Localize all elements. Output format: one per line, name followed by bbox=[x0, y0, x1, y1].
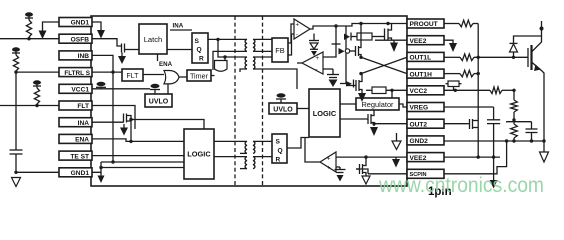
svg-text:Timer: Timer bbox=[190, 71, 209, 80]
capacitor C3 bbox=[487, 120, 500, 159]
svg-text:Q: Q bbox=[278, 148, 283, 155]
svg-text:OSFB: OSFB bbox=[71, 36, 90, 43]
transformer T4 bbox=[245, 157, 255, 169]
svg-text:-: - bbox=[316, 67, 318, 73]
pin ENA bbox=[59, 134, 92, 143]
block Timer bbox=[187, 70, 211, 81]
isolation barrier dashed line left bbox=[234, 16, 236, 186]
resistor R2 bbox=[13, 55, 18, 72]
label INA bbox=[170, 23, 192, 31]
wire T2 to FB bbox=[253, 56, 272, 58]
resistor RB1 bbox=[351, 33, 372, 40]
svg-text:VCC2: VCC2 bbox=[410, 88, 428, 95]
wire OUT2 row bbox=[372, 122, 407, 125]
pin VCC1 bbox=[59, 84, 92, 93]
wire VEE2 row bbox=[375, 39, 407, 41]
arrow bar symbol bbox=[346, 80, 354, 88]
pin OSFB bbox=[59, 34, 92, 43]
svg-text:+: + bbox=[327, 166, 331, 172]
capacitor C2 on VCC2 bbox=[446, 81, 462, 90]
wire Q2 source join bbox=[129, 124, 132, 143]
wire T1b to FB bbox=[253, 50, 272, 52]
zener under A1 bbox=[309, 34, 319, 57]
transistor Q9 bbox=[467, 119, 479, 129]
svg-text:FLTRL S: FLTRL S bbox=[64, 70, 90, 77]
block FB bbox=[272, 38, 288, 62]
arrow open right ext bbox=[540, 141, 549, 162]
svg-text:TE ST: TE ST bbox=[70, 153, 89, 160]
wire RC rail top bbox=[506, 121, 532, 123]
wire LOGIC1 out2 bbox=[214, 156, 247, 158]
block Regulator bbox=[356, 98, 399, 110]
wire T4 to SR2 bbox=[253, 156, 272, 158]
wire GND2 ext bbox=[444, 139, 546, 142]
wire FB to A1 plus bbox=[288, 24, 294, 43]
wire FLTRLS row bbox=[14, 70, 59, 73]
pin FLT bbox=[59, 101, 92, 110]
svg-text:INA: INA bbox=[173, 23, 184, 30]
pin VEE2 lower bbox=[407, 153, 444, 162]
svg-text:GND1: GND1 bbox=[71, 170, 90, 177]
capacitor C1 bbox=[10, 150, 23, 174]
svg-text:OUT1L: OUT1L bbox=[410, 55, 432, 62]
wire A1 out bbox=[310, 22, 407, 29]
wire driver feed bbox=[224, 57, 226, 61]
pin OUT2 bbox=[407, 119, 444, 128]
svg-text:OUT1H: OUT1H bbox=[410, 71, 433, 78]
resistor R6 bbox=[460, 70, 474, 77]
svg-text:R: R bbox=[276, 157, 281, 164]
zener ground at A3 bbox=[335, 167, 346, 182]
svg-text:ENA: ENA bbox=[159, 61, 173, 68]
transistor Q3 bbox=[372, 24, 392, 41]
wire VREG ext bbox=[444, 107, 494, 120]
pin OUT1H bbox=[407, 69, 444, 78]
svg-text:GND1: GND1 bbox=[71, 20, 90, 27]
arrow gnd bottom internal bbox=[98, 172, 105, 183]
svg-text:S: S bbox=[195, 38, 200, 45]
1pin text bbox=[428, 186, 452, 198]
pin VEE2 bbox=[407, 36, 444, 45]
wire OUT1L ext bbox=[444, 56, 528, 59]
svg-text:+: + bbox=[327, 157, 331, 163]
wire LOGIC1 out1 bbox=[214, 140, 247, 142]
arrow diode in1 bbox=[344, 33, 351, 41]
transformer T3 bbox=[245, 141, 255, 153]
arrow to VEE2 bbox=[390, 40, 398, 52]
wire A3 in feed bbox=[336, 155, 407, 158]
wire FLTRLS to FLT bbox=[92, 70, 122, 73]
wire mid vertical bus bbox=[111, 72, 114, 164]
wire T1 to FB bbox=[253, 38, 272, 40]
block UVLO1 bbox=[145, 94, 172, 107]
transistor Q5 bbox=[346, 74, 362, 93]
capacitor C4 bbox=[526, 122, 538, 141]
wire OSFB to Latch bbox=[92, 39, 122, 46]
wire VEE2 ext arrow bbox=[444, 40, 457, 52]
svg-text:ENA: ENA bbox=[75, 137, 89, 144]
op-amp A2 bbox=[302, 52, 323, 74]
resistor R8 vertical bbox=[511, 90, 518, 121]
arrow to VEE2 lower bbox=[392, 157, 400, 167]
wire OUT1H ext bbox=[444, 73, 478, 75]
svg-text:R: R bbox=[199, 56, 204, 63]
wire bus1 to LOGIC1 bbox=[101, 161, 184, 163]
IC boundary box bbox=[91, 16, 407, 186]
wire T3 stub bbox=[240, 152, 247, 154]
ground G-left bbox=[12, 178, 21, 187]
svg-text:INA: INA bbox=[78, 120, 90, 127]
svg-text:FLT: FLT bbox=[77, 103, 89, 110]
svg-text:INB: INB bbox=[78, 53, 90, 60]
svg-text:VEE2: VEE2 bbox=[410, 38, 427, 45]
pin VREG bbox=[407, 103, 444, 112]
wire VCC1 bbox=[92, 88, 150, 90]
resistor R9 vertical bbox=[511, 122, 518, 141]
wire bus2 to LOGIC1 bbox=[101, 167, 184, 169]
transistor Q6 bbox=[340, 110, 374, 126]
pin FLTRLS bbox=[59, 68, 92, 77]
resistor R3 bbox=[34, 88, 39, 106]
wire FB to A1 minus bbox=[288, 34, 294, 55]
svg-text:UVLO: UVLO bbox=[273, 107, 293, 114]
resistor R5 bbox=[460, 54, 474, 61]
gate G1 bbox=[164, 70, 179, 83]
wire gate to Timer bbox=[179, 76, 187, 78]
svg-text:GND2: GND2 bbox=[410, 138, 429, 145]
resistor R4 bbox=[459, 20, 473, 27]
label ENA bbox=[158, 54, 173, 68]
wire A3 out to LOGIC2 bbox=[305, 138, 320, 163]
arrow below Q5 bbox=[358, 93, 366, 102]
svg-text:VREG: VREG bbox=[410, 105, 429, 112]
wire vert v346 bbox=[340, 26, 347, 84]
arrow circle in2 bbox=[339, 48, 350, 55]
svg-text:PROOUT: PROOUT bbox=[410, 21, 438, 28]
pin PROOUT bbox=[407, 19, 444, 28]
wire ENA to LOGIC1 bbox=[92, 139, 184, 142]
pin INB bbox=[59, 51, 92, 60]
svg-text:Latch: Latch bbox=[144, 35, 163, 44]
capacitor on UVLO2 bbox=[276, 93, 286, 103]
svg-text:UVLO: UVLO bbox=[149, 99, 169, 106]
wire INB bbox=[92, 55, 113, 72]
svg-text:VCC1: VCC1 bbox=[71, 87, 89, 94]
wire left vertical bus bbox=[15, 72, 17, 150]
capacitor on UVLO1 bbox=[150, 84, 160, 94]
svg-text:FLT: FLT bbox=[127, 73, 140, 80]
block LOGIC2 bbox=[309, 89, 340, 137]
arrow below Q6 bbox=[370, 127, 378, 136]
wire VEE2 lower ext bbox=[444, 156, 500, 158]
wire TEST to LOGIC1 bbox=[92, 155, 184, 157]
svg-text:www.cntronics.com: www.cntronics.com bbox=[378, 174, 544, 197]
driver U2 bbox=[215, 61, 228, 72]
transistor Q1 bbox=[122, 44, 140, 53]
isolation barrier dashed line right bbox=[262, 16, 264, 186]
wire A2 out bbox=[297, 62, 302, 64]
svg-text:-: - bbox=[296, 33, 298, 39]
wire T2 return bbox=[240, 69, 247, 72]
comparator A3 bbox=[320, 152, 336, 172]
svg-text:Q: Q bbox=[197, 47, 202, 54]
wire FLT pin to LOGIC1 bbox=[92, 106, 135, 130]
IGBT Q8 bbox=[528, 21, 544, 141]
wire GND1 bottom row bbox=[16, 171, 59, 173]
pin INA bbox=[59, 118, 92, 127]
transformer T2 bbox=[245, 57, 255, 69]
transistor Q7 bbox=[356, 157, 366, 176]
capacitor under A2 bbox=[327, 69, 339, 87]
wire right vert bus bbox=[477, 24, 480, 159]
terminal P1 bbox=[25, 12, 33, 20]
pin TEST bbox=[59, 151, 92, 160]
arrow GND1-OSFB bbox=[39, 22, 60, 39]
pin GND1 bottom bbox=[59, 168, 92, 177]
wire T1 return bbox=[213, 51, 247, 70]
resistor R1 bbox=[26, 20, 31, 40]
transistor Q2 bbox=[124, 114, 133, 125]
wire A2 in2 bbox=[323, 68, 333, 70]
arrow gnd VEE2 ext bbox=[490, 157, 498, 188]
wire UVLO2 to LOGIC2 bbox=[297, 108, 309, 110]
wire OUT2 ext bbox=[444, 123, 467, 125]
wire FLT row bbox=[0, 104, 59, 107]
wire Regulator bottom bbox=[373, 109, 375, 112]
terminal P2 bbox=[12, 47, 20, 55]
wire to T2 bbox=[218, 39, 247, 58]
wire to Regulator top bbox=[391, 90, 393, 98]
wire T2b to LOGIC2 bbox=[253, 69, 297, 89]
svg-text:+: + bbox=[296, 23, 300, 29]
arrow open GND2 bbox=[392, 133, 401, 150]
terminal P3 bbox=[33, 80, 41, 88]
wire Q2 drain across bbox=[131, 120, 204, 130]
wire PROOUT ext bbox=[444, 23, 478, 25]
block LOGIC1 bbox=[184, 129, 214, 179]
wire INA bbox=[92, 121, 124, 123]
resistor R7 bbox=[490, 87, 502, 94]
pin GND2 bbox=[407, 136, 444, 145]
transistor Q4 bbox=[346, 24, 361, 58]
arrow gnd top internal bbox=[92, 22, 105, 39]
wire VCC2 ext bbox=[444, 89, 516, 92]
wire SCPIN ext bbox=[444, 141, 507, 174]
wire LOGIC2 to Regulator bbox=[340, 103, 356, 105]
block FLT bbox=[122, 69, 143, 81]
resistor RB2 bbox=[366, 87, 407, 94]
capacitor on VCC1 bbox=[96, 82, 106, 89]
svg-text:OUT2: OUT2 bbox=[410, 121, 428, 128]
svg-text:VEE2: VEE2 bbox=[410, 155, 427, 162]
flip-flop SR2 bbox=[272, 134, 287, 164]
watermark www.cntronics.com bbox=[378, 174, 544, 197]
wire Timer to driver bbox=[211, 75, 215, 77]
wire SCPIN row bbox=[356, 169, 407, 174]
wire Latch to SR1 bbox=[167, 49, 192, 51]
arrow below Q2 bbox=[120, 124, 128, 136]
arrow below Q1 bbox=[118, 53, 126, 65]
wire T4 stub bbox=[240, 168, 247, 170]
pin SCPIN bbox=[407, 169, 444, 178]
pin VCC2 bbox=[407, 86, 444, 95]
wire gnd join bottom bbox=[92, 162, 103, 172]
pin GND1 bbox=[59, 18, 92, 27]
op-amp A1 bbox=[294, 19, 310, 39]
transformer T1 bbox=[245, 39, 255, 51]
svg-text:LOGIC: LOGIC bbox=[313, 109, 337, 118]
wire X cross bbox=[359, 56, 407, 76]
wire Regulator to VREG bbox=[399, 104, 407, 107]
block Latch bbox=[139, 24, 167, 54]
flip-flop SR1 bbox=[192, 33, 208, 63]
wire T3 to SR2 bbox=[253, 140, 272, 142]
svg-text:FB: FB bbox=[275, 46, 285, 55]
wire OSFB row bbox=[0, 38, 59, 40]
block UVLO2 bbox=[269, 103, 297, 114]
svg-text:+: + bbox=[316, 56, 320, 62]
wire gate to UVLO1 bbox=[167, 84, 169, 95]
wire SR1 to T1 bbox=[208, 38, 247, 41]
svg-text:S: S bbox=[276, 139, 281, 146]
svg-text:LOGIC: LOGIC bbox=[187, 150, 211, 159]
diode D1 bbox=[510, 36, 542, 57]
svg-text:Regulator: Regulator bbox=[361, 100, 394, 109]
arrow open below Q7 bbox=[362, 176, 370, 184]
wire SR2 to LOGIC2 bbox=[287, 138, 309, 149]
pin OUT1L bbox=[407, 52, 444, 61]
wire FLT to gate bbox=[143, 74, 164, 76]
wire A2 in1 bbox=[323, 26, 341, 57]
